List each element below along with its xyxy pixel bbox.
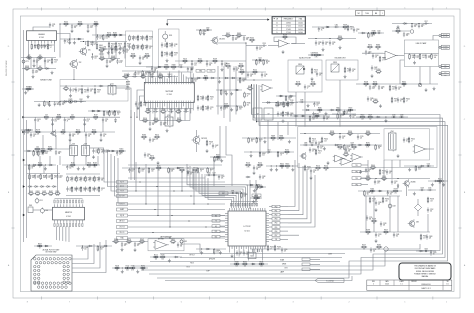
svg-text:4: 4 bbox=[237, 302, 239, 304]
bus junction dots bbox=[139, 181, 208, 238]
svg-text:R233: R233 bbox=[78, 22, 82, 24]
svg-text:PD7: PD7 bbox=[275, 235, 278, 237]
svg-text:S RF: S RF bbox=[206, 270, 209, 272]
capacitor C110 bbox=[32, 69, 39, 74]
ground G214 bbox=[433, 87, 436, 90]
svg-text:103: 103 bbox=[131, 171, 133, 173]
enclosure AF power box bbox=[148, 239, 184, 251]
svg-text:C: C bbox=[276, 29, 277, 31]
svg-text:AF MUTE: AF MUTE bbox=[209, 257, 215, 260]
electrolytic C247 bbox=[388, 203, 396, 209]
svg-text:C200: C200 bbox=[377, 30, 381, 32]
capacitor C225 bbox=[372, 53, 379, 58]
filler det mid2 bbox=[262, 100, 298, 108]
svg-text:220: 220 bbox=[241, 74, 243, 76]
svg-text:R618: R618 bbox=[235, 262, 239, 264]
svg-text:R632: R632 bbox=[243, 262, 247, 264]
svg-text:R132: R132 bbox=[285, 150, 289, 152]
filler cluster left 102 bbox=[24, 149, 48, 157]
svg-text:220: 220 bbox=[344, 29, 346, 31]
op-amp IC202a bbox=[277, 40, 290, 48]
capacitor C127 bbox=[69, 132, 76, 137]
diode D101 bbox=[45, 68, 50, 70]
svg-text:DATE: DATE bbox=[385, 280, 388, 283]
ground G228 bbox=[253, 171, 256, 174]
svg-text:AF OUT: AF OUT bbox=[119, 220, 124, 223]
filler mid cluster bbox=[210, 155, 226, 163]
svg-text:C515: C515 bbox=[39, 200, 42, 202]
svg-text:561: 561 bbox=[147, 156, 149, 158]
bottom bus line 8 bbox=[250, 244, 420, 249]
svg-text:10K: 10K bbox=[367, 234, 369, 236]
svg-text:R205: R205 bbox=[64, 22, 68, 24]
test point labels column bbox=[352, 164, 368, 187]
diode D102 bbox=[99, 85, 104, 87]
svg-text:R567: R567 bbox=[216, 155, 220, 157]
bottom bus line 5 bbox=[160, 253, 345, 255]
svg-text:B: B bbox=[464, 192, 466, 194]
svg-text:223: 223 bbox=[272, 140, 274, 142]
svg-text:220: 220 bbox=[155, 122, 157, 124]
svg-text:R445: R445 bbox=[370, 189, 374, 191]
svg-text:SQ: SQ bbox=[215, 226, 217, 228]
filler br1 row bbox=[300, 142, 330, 150]
svg-text:1K: 1K bbox=[280, 155, 282, 157]
svg-text:223: 223 bbox=[149, 38, 151, 40]
capacitor C214 bbox=[243, 36, 250, 41]
svg-text:223: 223 bbox=[324, 140, 326, 142]
svg-text:TO DISPLAY: TO DISPLAY bbox=[326, 279, 334, 282]
resistor R207 bbox=[144, 54, 150, 60]
resistor R244 bbox=[351, 145, 357, 151]
svg-text:472: 472 bbox=[28, 55, 31, 57]
capacitor C227 bbox=[413, 54, 420, 59]
capacitor C502 bbox=[243, 250, 250, 255]
parts above opamp4 bbox=[395, 29, 414, 38]
wire RT to jacks2 bbox=[438, 46, 440, 48]
svg-text:104: 104 bbox=[114, 52, 116, 54]
svg-text:B: B bbox=[8, 192, 10, 194]
svg-text:333: 333 bbox=[251, 42, 253, 44]
svg-text:4.7K: 4.7K bbox=[56, 195, 59, 197]
arrowhead into table bbox=[267, 18, 269, 20]
svg-text:10K: 10K bbox=[39, 70, 41, 72]
rail above RA501 bbox=[231, 201, 258, 203]
capacitor C226 bbox=[371, 65, 378, 70]
svg-text:103: 103 bbox=[361, 119, 363, 121]
capacitor C131 bbox=[55, 150, 62, 155]
wire v mid1 bbox=[130, 110, 132, 180]
svg-text:A: A bbox=[8, 264, 10, 267]
svg-text:B: B bbox=[277, 26, 278, 28]
resistor R249 bbox=[370, 165, 376, 171]
svg-text:10K: 10K bbox=[54, 121, 56, 123]
resistor R115 bbox=[108, 42, 115, 48]
ground G210 bbox=[282, 119, 285, 122]
svg-text:47: 47 bbox=[217, 159, 219, 161]
svg-text:561: 561 bbox=[235, 39, 237, 41]
electrolytic C301 bbox=[40, 208, 48, 214]
feedback wire loop bbox=[274, 37, 296, 44]
IF transformer T103 bbox=[82, 144, 90, 157]
svg-text:103: 103 bbox=[87, 121, 89, 123]
capacitor C237 bbox=[345, 147, 352, 152]
transistor Q201 bbox=[211, 36, 226, 45]
svg-text:222: 222 bbox=[347, 148, 349, 150]
svg-text:222: 222 bbox=[152, 141, 154, 143]
svg-text:471: 471 bbox=[312, 151, 314, 153]
svg-text:103: 103 bbox=[430, 200, 432, 202]
resistor R104 bbox=[63, 22, 69, 28]
svg-text:1:1: 1:1 bbox=[401, 284, 403, 286]
resistor R215 bbox=[236, 33, 242, 39]
svg-text:10.240: 10.240 bbox=[298, 32, 303, 34]
filler socket right bbox=[76, 245, 112, 251]
filler bottom left bbox=[112, 266, 148, 274]
wire center drop1 bbox=[245, 43, 247, 61]
node dots bbox=[191, 35, 233, 62]
svg-text:472: 472 bbox=[151, 160, 153, 162]
svg-text:SCAN: SCAN bbox=[280, 258, 284, 261]
svg-text:104: 104 bbox=[286, 168, 288, 170]
enclosure VCO left bbox=[126, 31, 153, 67]
svg-text:R261: R261 bbox=[94, 22, 98, 24]
filler cluster mixer-right bbox=[100, 46, 129, 54]
resistor R210 bbox=[171, 51, 178, 57]
svg-text:10K: 10K bbox=[171, 171, 173, 173]
wire left of capC218 bbox=[246, 45, 261, 47]
svg-text:104: 104 bbox=[194, 81, 196, 83]
resistor R204 bbox=[133, 44, 140, 50]
svg-text:471: 471 bbox=[190, 174, 192, 176]
wire v2 bbox=[57, 174, 59, 194]
verticals right lower bbox=[366, 196, 428, 232]
transistor Q103 bbox=[50, 130, 56, 137]
parts bottom right bbox=[361, 245, 388, 253]
resistor R203 bbox=[146, 35, 153, 41]
filler mcu nw bbox=[228, 190, 247, 198]
svg-text:102: 102 bbox=[155, 259, 157, 261]
verticals topleft rows bbox=[31, 58, 45, 69]
wire top rail bbox=[60, 23, 98, 25]
svg-text:TX B: TX B bbox=[186, 266, 189, 268]
svg-text:47: 47 bbox=[270, 248, 272, 250]
svg-text:2SC: 2SC bbox=[79, 62, 82, 64]
wire det down2 bbox=[259, 122, 261, 154]
wire q2 down bbox=[73, 69, 75, 80]
svg-text:R378: R378 bbox=[69, 99, 73, 101]
capacitor C221 bbox=[322, 40, 329, 45]
wire from U101 pin 1 down bbox=[28, 43, 30, 57]
svg-text:VR202: VR202 bbox=[333, 62, 337, 64]
svg-text:102: 102 bbox=[254, 74, 256, 76]
label LINE OUT bbox=[416, 42, 426, 45]
svg-text:PD6: PD6 bbox=[275, 231, 278, 233]
svg-text:471: 471 bbox=[65, 86, 68, 88]
svg-text:C686: C686 bbox=[304, 142, 308, 144]
capacitor C124 bbox=[84, 117, 91, 122]
svg-text:8: 8 bbox=[27, 302, 29, 304]
capacitor C250 bbox=[375, 232, 382, 237]
svg-text:103: 103 bbox=[331, 135, 333, 137]
svg-text:47: 47 bbox=[286, 154, 288, 156]
svg-text:561: 561 bbox=[312, 86, 314, 88]
section label SW ANT TUNE bbox=[40, 79, 52, 82]
svg-text:R375: R375 bbox=[157, 166, 161, 168]
resistor R228 bbox=[419, 53, 426, 59]
wire col 96 bbox=[95, 24, 97, 42]
svg-text:1K: 1K bbox=[297, 86, 299, 88]
resistor R119 bbox=[110, 56, 116, 62]
svg-text:R513: R513 bbox=[361, 115, 365, 117]
svg-text:PHONE: PHONE bbox=[443, 46, 448, 48]
ground G223 bbox=[134, 248, 137, 251]
capacitor C114 bbox=[110, 45, 117, 50]
svg-text:222: 222 bbox=[360, 138, 362, 140]
resistor R205 bbox=[142, 44, 149, 50]
ground G226 bbox=[206, 149, 209, 152]
svg-text:1K: 1K bbox=[72, 91, 74, 93]
svg-text:102: 102 bbox=[141, 171, 143, 173]
resistor R256 bbox=[371, 219, 377, 225]
capacitor C104 bbox=[49, 23, 56, 28]
capacitor C238 bbox=[339, 134, 346, 139]
svg-text:102: 102 bbox=[369, 119, 371, 121]
svg-text:222: 222 bbox=[108, 37, 110, 39]
resistor R125 bbox=[69, 115, 75, 121]
resistor array RA501 above IC501 bbox=[230, 203, 257, 206]
rail 173.5 bbox=[27, 173, 60, 175]
resistor R219 bbox=[282, 35, 288, 41]
svg-text:333: 333 bbox=[180, 246, 182, 248]
svg-text:104: 104 bbox=[260, 266, 262, 268]
svg-text:223: 223 bbox=[375, 57, 377, 59]
svg-text:0.01: 0.01 bbox=[367, 180, 370, 182]
svg-text:333: 333 bbox=[378, 148, 380, 150]
svg-text:TA7758P: TA7758P bbox=[165, 90, 173, 93]
resistor R128 bbox=[60, 130, 66, 136]
filler left rows3 bbox=[24, 163, 56, 171]
resistor R263 bbox=[176, 118, 182, 124]
wire top of U101 bbox=[33, 27, 50, 31]
capacitor C122 bbox=[51, 117, 58, 122]
mixer section enclosure bbox=[60, 80, 128, 102]
svg-text:471: 471 bbox=[116, 270, 118, 272]
svg-text:1K: 1K bbox=[200, 171, 202, 173]
wire mixer up bbox=[128, 88, 131, 117]
svg-text:333: 333 bbox=[42, 153, 44, 155]
left vertical wire bbox=[23, 30, 25, 117]
svg-text:103: 103 bbox=[318, 44, 320, 46]
svg-text:R644: R644 bbox=[336, 108, 340, 110]
svg-text:333: 333 bbox=[57, 104, 59, 106]
svg-text:TP3: TP3 bbox=[355, 178, 358, 180]
svg-text:220: 220 bbox=[259, 49, 261, 51]
svg-text:471: 471 bbox=[365, 86, 367, 88]
svg-text:C693: C693 bbox=[310, 142, 314, 144]
svg-text:1: 1 bbox=[404, 302, 406, 304]
svg-text:2SC1675: 2SC1675 bbox=[219, 39, 225, 41]
svg-text:222: 222 bbox=[37, 177, 39, 179]
svg-text:104: 104 bbox=[373, 251, 375, 253]
IC IC201 internal pin ticks bbox=[146, 82, 193, 102]
filler left of br1 bbox=[242, 136, 296, 144]
svg-text:R158: R158 bbox=[93, 163, 97, 165]
resistor R109 bbox=[51, 58, 58, 64]
resistor R214 bbox=[225, 33, 231, 39]
svg-text:R156: R156 bbox=[131, 266, 135, 268]
svg-text:C581: C581 bbox=[231, 190, 235, 192]
svg-text:10.240: 10.240 bbox=[298, 23, 303, 25]
svg-text:471: 471 bbox=[26, 70, 28, 72]
capacitor C216 bbox=[206, 61, 213, 66]
svg-text:R332: R332 bbox=[402, 82, 406, 84]
ground G218 bbox=[359, 170, 362, 173]
svg-text:333: 333 bbox=[383, 180, 385, 182]
IC IC201 top pin wires bbox=[146, 70, 193, 82]
svg-text:47: 47 bbox=[369, 49, 371, 51]
svg-text:XTAL: XTAL bbox=[299, 18, 303, 21]
svg-text:104: 104 bbox=[349, 135, 351, 137]
capacitor C224 bbox=[365, 50, 372, 55]
wire icb left2 bbox=[140, 96, 145, 121]
junction dots extra bbox=[59, 23, 420, 208]
svg-text:10K: 10K bbox=[434, 57, 436, 59]
svg-text:333: 333 bbox=[58, 153, 60, 155]
IF transformer T102 bbox=[70, 144, 78, 157]
svg-text:R126: R126 bbox=[246, 163, 250, 165]
svg-text:0.01: 0.01 bbox=[35, 72, 38, 74]
vertical bus wires center bbox=[252, 84, 257, 122]
svg-text:220: 220 bbox=[71, 119, 73, 121]
capacitor C103 bbox=[44, 44, 51, 49]
resistor R236 bbox=[372, 82, 378, 88]
svg-text:222: 222 bbox=[216, 252, 218, 254]
svg-text:561: 561 bbox=[52, 26, 54, 28]
rail 132 bbox=[26, 131, 115, 133]
svg-text:R239: R239 bbox=[283, 35, 287, 37]
svg-text:561: 561 bbox=[277, 248, 279, 250]
resistor R253 bbox=[427, 197, 434, 203]
svg-text:104: 104 bbox=[313, 172, 315, 174]
svg-text:A: A bbox=[464, 264, 466, 267]
capacitor C201 bbox=[132, 35, 139, 40]
svg-text:102: 102 bbox=[62, 130, 65, 132]
filler left rows4 bbox=[62, 163, 100, 171]
svg-text:561: 561 bbox=[59, 177, 61, 179]
electrolytic C137 bbox=[35, 198, 43, 204]
svg-text:223: 223 bbox=[246, 39, 248, 41]
svg-text:220: 220 bbox=[165, 69, 167, 71]
filler left edge mid bbox=[22, 86, 34, 94]
svg-text:27.085: 27.085 bbox=[286, 29, 291, 31]
ground G219 bbox=[375, 208, 378, 211]
svg-text:R226: R226 bbox=[161, 255, 165, 257]
capacitor C242 bbox=[386, 169, 393, 174]
ground G103 bbox=[33, 64, 36, 67]
svg-text:220: 220 bbox=[84, 249, 86, 251]
op-amp IC203 bbox=[383, 51, 398, 60]
wire rail 35.5 bbox=[222, 35, 246, 37]
ground G202 bbox=[166, 59, 169, 62]
svg-text:R456: R456 bbox=[377, 69, 381, 71]
filler cluster t-row right bbox=[104, 149, 126, 156]
capacitor C257 bbox=[212, 143, 219, 148]
parts 390-420 bbox=[391, 97, 410, 103]
notice text bbox=[414, 264, 436, 278]
svg-text:47: 47 bbox=[210, 171, 212, 173]
filler bottom mid bbox=[196, 248, 226, 254]
wire center verticals bbox=[214, 66, 236, 186]
svg-text:10.240: 10.240 bbox=[298, 26, 303, 28]
svg-text:SH: SH bbox=[447, 281, 449, 283]
capacitor C217 bbox=[221, 61, 228, 66]
label boxes right-mid bbox=[302, 258, 320, 271]
svg-text:XTAL: XTAL bbox=[199, 70, 203, 73]
table cell text bbox=[276, 18, 303, 34]
resistor column right of IC201 bbox=[197, 95, 214, 111]
svg-text:C221: C221 bbox=[258, 57, 262, 59]
filler socket top bbox=[34, 244, 52, 250]
svg-text:R170: R170 bbox=[141, 266, 145, 268]
svg-text:103: 103 bbox=[172, 69, 174, 71]
svg-text:471: 471 bbox=[137, 245, 139, 247]
svg-text:C208: C208 bbox=[392, 205, 395, 207]
svg-text:102: 102 bbox=[93, 134, 95, 136]
svg-text:C541: C541 bbox=[392, 114, 396, 116]
node dots bbox=[315, 38, 330, 39]
svg-text:472: 472 bbox=[371, 193, 373, 195]
svg-text:R299: R299 bbox=[366, 230, 370, 232]
svg-text:4.7K: 4.7K bbox=[247, 167, 250, 169]
wire center drop2 bbox=[245, 61, 247, 80]
svg-text:104: 104 bbox=[105, 121, 107, 123]
svg-text:103: 103 bbox=[250, 76, 252, 78]
svg-text:T103: T103 bbox=[84, 144, 87, 146]
svg-text:KEY: KEY bbox=[222, 193, 225, 195]
svg-text:5: 5 bbox=[181, 302, 183, 304]
svg-text:4.7K: 4.7K bbox=[144, 122, 147, 124]
svg-text:222: 222 bbox=[319, 112, 321, 114]
svg-text:220: 220 bbox=[259, 167, 261, 169]
bottom bus line 6 bbox=[180, 257, 342, 259]
svg-text:0.01: 0.01 bbox=[194, 65, 197, 67]
capacitor C235 bbox=[315, 140, 322, 145]
ground G101 bbox=[71, 29, 74, 32]
filler topleft band bbox=[60, 38, 84, 44]
socket caption bbox=[43, 248, 60, 253]
capacitor C130 bbox=[42, 150, 49, 155]
svg-text:471: 471 bbox=[290, 104, 292, 106]
svg-text:102: 102 bbox=[39, 66, 42, 68]
svg-text:R520: R520 bbox=[100, 56, 104, 58]
svg-text:R285: R285 bbox=[377, 245, 381, 247]
wires v center bbox=[250, 180, 256, 208]
svg-text:472: 472 bbox=[286, 105, 288, 107]
filler sq col bbox=[296, 99, 320, 107]
svg-text:C650: C650 bbox=[167, 74, 171, 76]
svg-text:R225: R225 bbox=[239, 64, 243, 66]
svg-text:7: 7 bbox=[69, 302, 71, 304]
svg-text:R685: R685 bbox=[237, 33, 241, 35]
svg-text:S-MET: S-MET bbox=[120, 209, 124, 211]
svg-text:MIC: MIC bbox=[444, 74, 446, 76]
resistor R122 bbox=[94, 88, 101, 94]
ground G106 bbox=[106, 64, 109, 67]
capacitor C109 bbox=[44, 58, 51, 63]
left margin vertical doc label bbox=[6, 60, 8, 76]
svg-text:10.240: 10.240 bbox=[298, 29, 303, 31]
